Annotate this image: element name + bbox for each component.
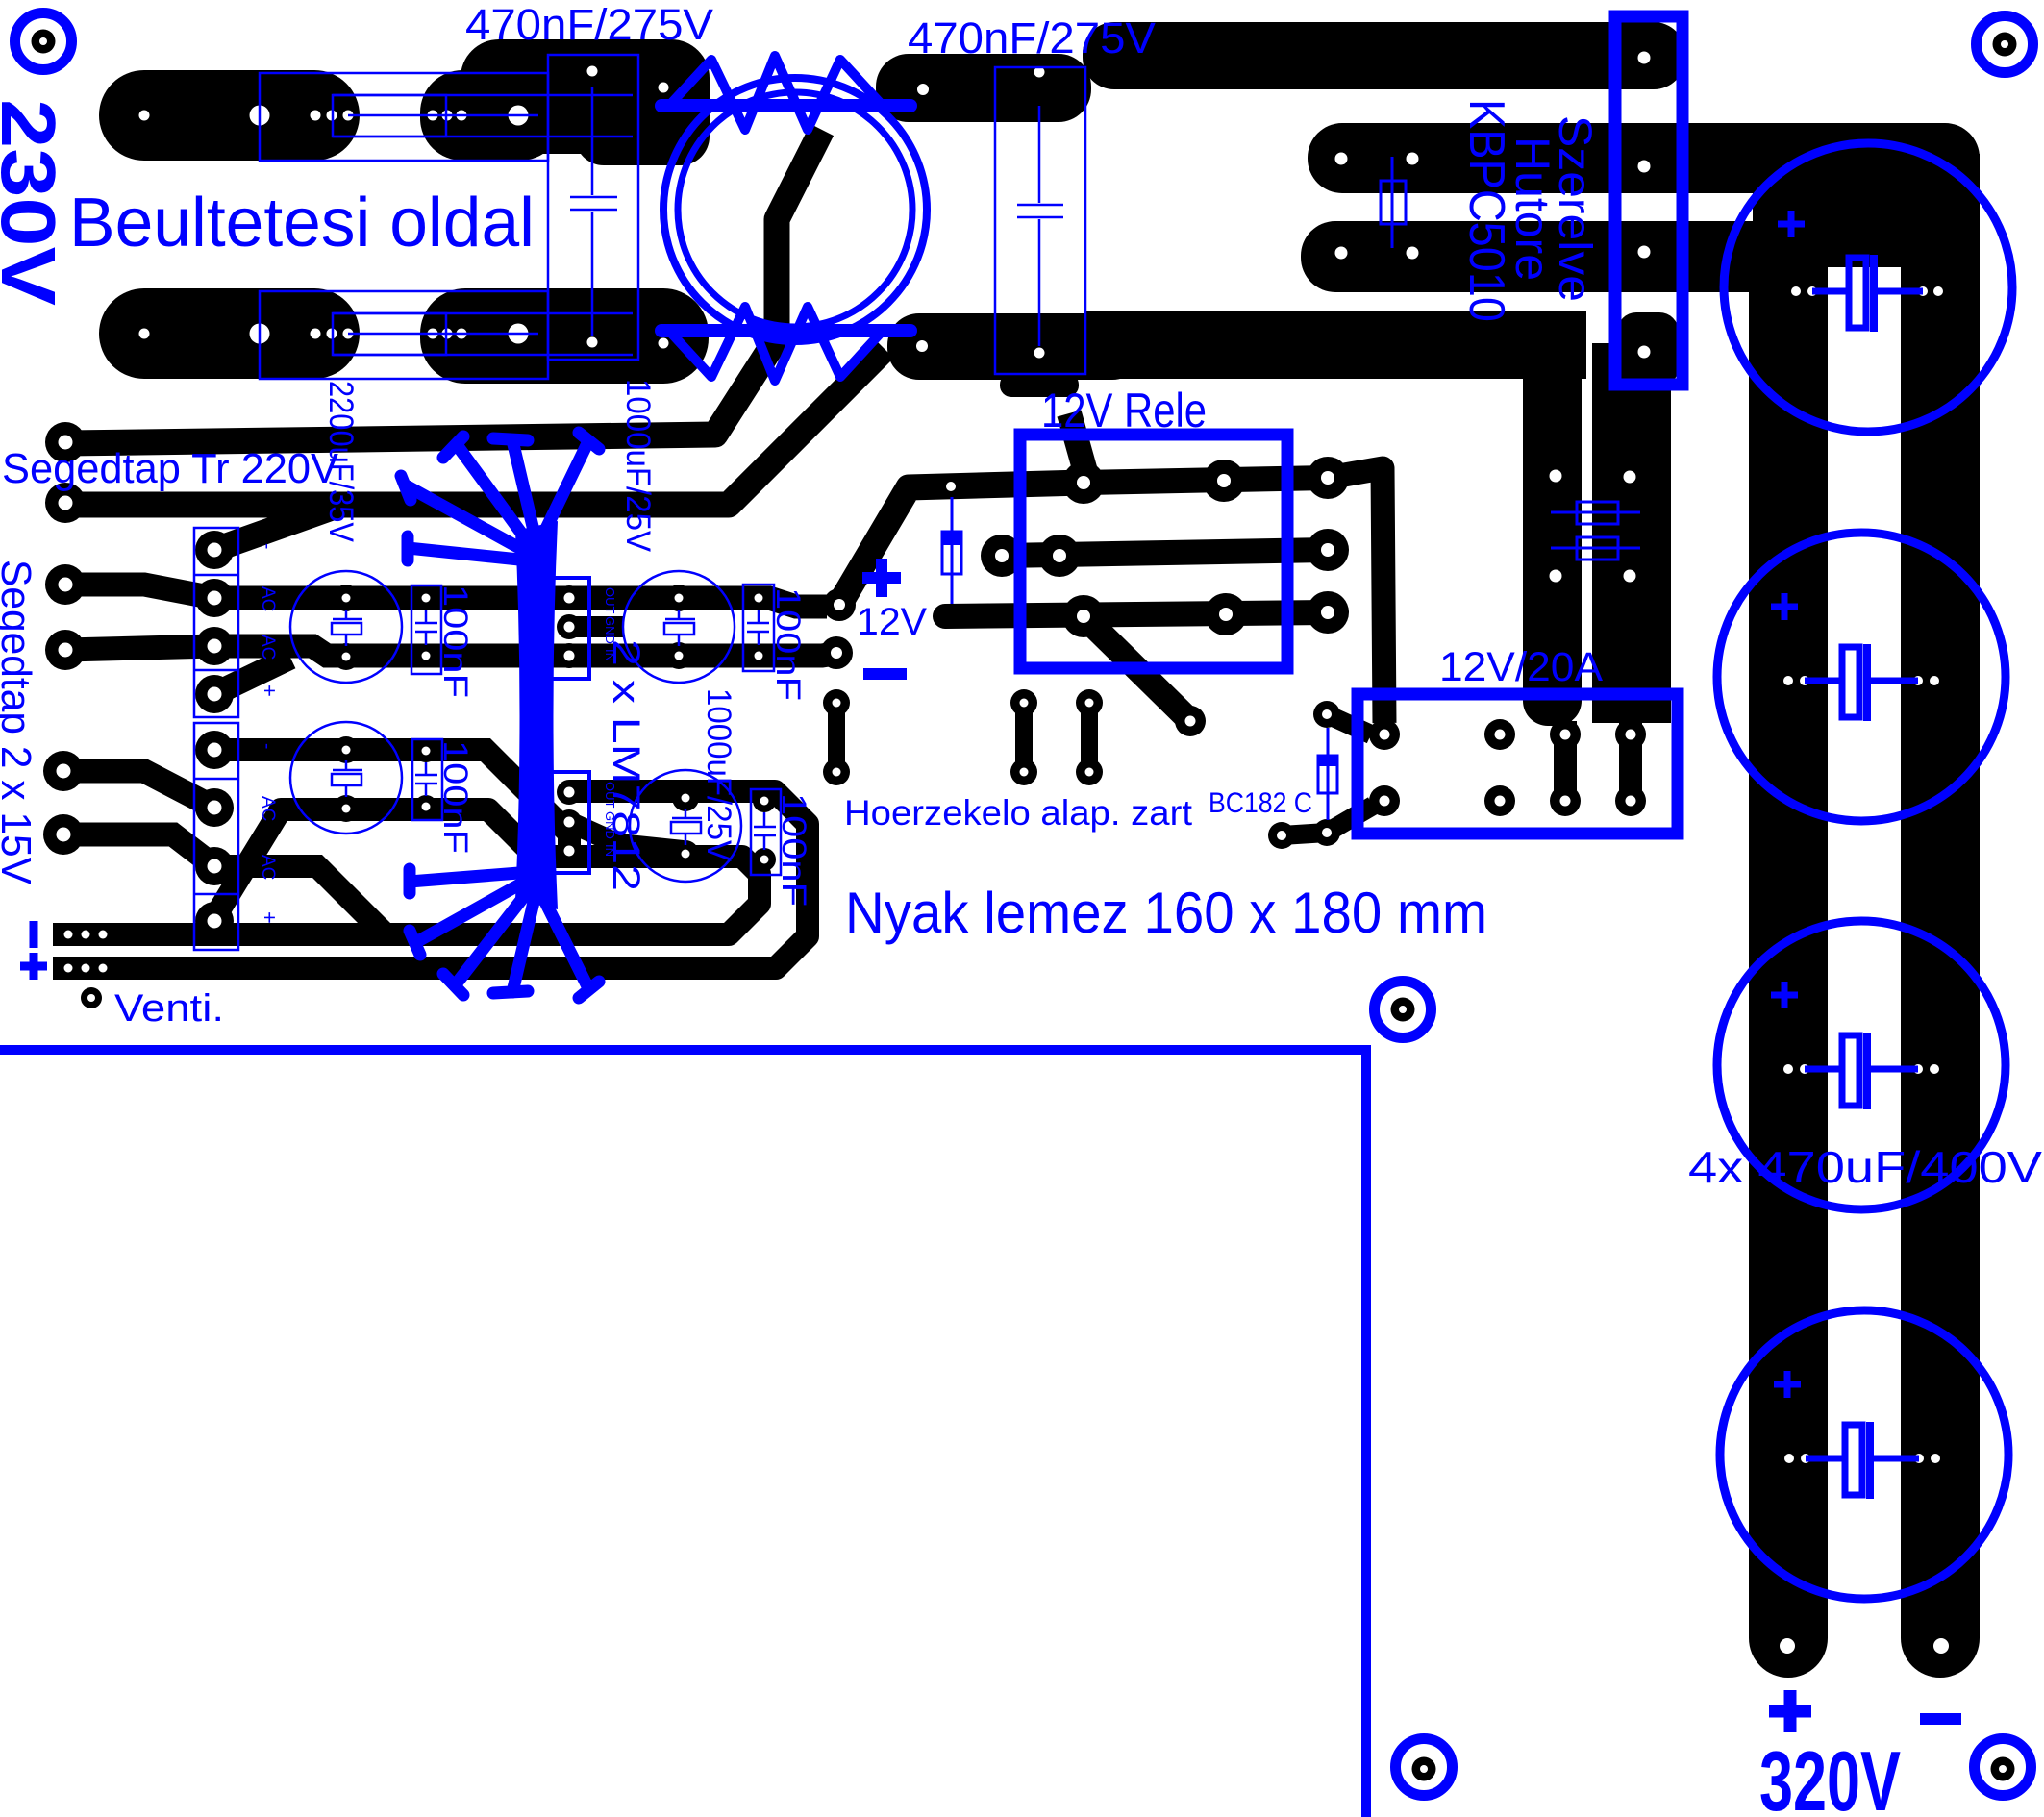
diode D1: [942, 497, 961, 604]
svg-text:IN: IN: [603, 844, 617, 857]
svg-text:Szerelve: Szerelve: [1549, 115, 1600, 302]
capacitor C1 470nF outline: [548, 55, 638, 360]
pad 12V minus output: [820, 636, 853, 669]
pad 12V/20A connector pads row2: [1369, 785, 1646, 816]
capacitor C4 2200uF outline: [290, 722, 402, 834]
bridge KBPC5010 outline: [1615, 16, 1683, 385]
pad blob C1 lower lobe: [575, 58, 710, 165]
pad C5 100nF pads: [414, 586, 437, 667]
wire row2 right pill to band: [887, 313, 1144, 380]
diode D2: [1318, 728, 1337, 820]
wire 2x15V feed 2: [65, 646, 214, 650]
board outline L line: [0, 1050, 1366, 1817]
hole 12V/20A pads: [1380, 730, 1636, 807]
hole middle components: [342, 482, 1094, 864]
thermistor R1 circle: [661, 56, 927, 381]
connector 12V/20A outline: [1358, 694, 1678, 834]
wire relay row2: [1002, 550, 1328, 556]
pad Segedtap Tr 220V pin1: [45, 422, 86, 462]
wire 230V pill row2 mid: [420, 288, 709, 384]
wire ch2 OUT outer U to Venti lower: [53, 791, 808, 968]
capacitor C11 470uF/400V: [1724, 143, 2012, 432]
svg-text:Hoerzekelo alap. zart: Hoerzekelo alap. zart: [844, 793, 1193, 833]
svg-text:100nF: 100nF: [436, 585, 474, 698]
wire 2x15V feed 4: [63, 834, 214, 866]
wire 12V OUT rail y622: [214, 598, 827, 607]
pad Segedtap Tr 220V pin2: [45, 483, 86, 523]
pad terminal block X2 pins: [195, 731, 234, 940]
mounting hole ring bottom-right: [1975, 1739, 2032, 1796]
mounting hole ring middle: [1375, 982, 1432, 1038]
svg-text:BC182 C: BC182 C: [1209, 787, 1312, 819]
wire relay diagonal contact: [1084, 616, 1190, 721]
capacitor C2 470nF outline: [995, 67, 1085, 374]
pad 12V/20A connector pads row1: [1369, 719, 1646, 750]
pad Segedtap 2x15V pin3: [43, 751, 84, 791]
svg-text:12V: 12V: [857, 601, 927, 643]
mounting hole ring top-left: [15, 13, 72, 70]
wire block1 plus diagonal: [214, 658, 290, 694]
pad Segedtap 2x15V pin1: [45, 564, 86, 605]
thermistor bottom zigzag: [667, 307, 885, 381]
pad blob C1 area top: [461, 39, 710, 154]
svg-text:470nF/275V: 470nF/275V: [465, 0, 713, 49]
pad C10 100nF pads: [753, 789, 776, 871]
wire KBPC col to 12V/20A pads: [1619, 719, 1642, 801]
label 320V minus: [1920, 1713, 1961, 1725]
wire top band to bridge: [1083, 22, 1685, 89]
hole relay pads: [995, 471, 1334, 727]
svg-text:100nF: 100nF: [775, 793, 812, 907]
relay K1 outline: [1020, 435, 1287, 668]
capacitor C12 470uF/400V: [1717, 533, 2006, 821]
svg-text:1000uF/25V: 1000uF/25V: [619, 379, 657, 553]
pad Segedtap 2x15V pin4: [43, 814, 84, 855]
svg-text:1000uF/25V: 1000uF/25V: [700, 688, 737, 862]
wire ch2 bottom rail to inner U and Venti upper: [53, 809, 760, 934]
pad C4 2200uF pads: [333, 736, 360, 822]
label Venti bar: [30, 921, 38, 948]
capacitor C13 470uF/400V: [1717, 921, 2006, 1209]
wire top band left (C2 pad blob): [876, 54, 1091, 122]
fuse F1 symbol: [1551, 502, 1640, 524]
mounting hole ring bottom-left: [1396, 1739, 1453, 1796]
terminal block X2 outline: [194, 723, 238, 950]
wire 12V+ to relay row1: [839, 483, 1084, 605]
wire 2x15V feed 1: [65, 585, 214, 598]
svg-text:12V Rele: 12V Rele: [1041, 384, 1207, 437]
hole row2 pills: [139, 324, 1045, 359]
heatsink bottom fins: [410, 873, 519, 882]
pad C8 1000uF pads: [672, 784, 699, 867]
label 12V plus: [862, 559, 901, 597]
svg-text:AC: AC: [258, 586, 278, 611]
wire 320V plus column: [1901, 154, 1980, 1638]
wire 230V pill row2 left: [99, 288, 360, 379]
svg-text:100nF: 100nF: [436, 740, 474, 854]
wire thermistor to top blob trace: [65, 130, 822, 443]
capacitor C9 100nF outline: [743, 585, 774, 671]
transistor Q1 BC182 pads: [1268, 701, 1373, 849]
svg-text:4x 470uF/400V: 4x 470uF/400V: [1688, 1142, 2042, 1192]
capacitor C5 100nF outline: [411, 585, 441, 674]
fuse outline row2: [260, 291, 633, 379]
pad C7 1000uF pads: [665, 585, 692, 669]
pad U1 LM7812 pins: [557, 585, 582, 668]
wire band2 bridge to right column: [1308, 123, 1980, 193]
pad sensor dumbbell 3: [1076, 689, 1103, 785]
svg-text:+: +: [258, 684, 282, 697]
label 320V plus: [1769, 1690, 1811, 1732]
wire band3 bridge to left column: [1301, 221, 1828, 292]
pad C3 2200uF pads: [333, 585, 360, 670]
label 12V minus: [863, 668, 907, 680]
svg-text:-: -: [257, 543, 277, 549]
wire 2x15V feed 3: [63, 771, 214, 808]
svg-text:GND: GND: [603, 616, 617, 644]
label Venti plus: [20, 953, 47, 980]
heatsink: [515, 521, 558, 909]
mounting hole ring top-right: [1977, 16, 2033, 73]
heatsink top fin feet: [443, 436, 463, 458]
wire 320V plus column bottom cap: [1901, 1599, 1980, 1678]
hole left connector pads: [57, 436, 222, 929]
pad Venti terminal ring: [81, 987, 102, 1008]
hole row1 pills: [139, 66, 1045, 126]
wire Segedtap T2 to row2 pill: [65, 349, 885, 505]
svg-text:OUT: OUT: [603, 587, 617, 614]
thermistor top lead: [661, 99, 910, 112]
svg-text:IN: IN: [603, 649, 617, 661]
pad terminal block X1 pins: [195, 531, 234, 713]
svg-text:Segedtap Tr 220V: Segedtap Tr 220V: [2, 445, 339, 492]
wire 320V minus column: [1749, 260, 1828, 1638]
regulator U2 LM7812 outline: [550, 772, 589, 873]
svg-text:230V: 230V: [0, 99, 71, 306]
svg-text:AC: AC: [258, 855, 278, 880]
wire row2 band to column A: [1085, 311, 1586, 379]
wire KBPC feed column down to 12V/20A: [1592, 343, 1671, 723]
wire 320V minus column bottom cap: [1749, 1599, 1828, 1678]
wire 230V pill row1 mid: [420, 70, 562, 161]
svg-text:Nyak lemez 160 x 180 mm: Nyak lemez 160 x 180 mm: [845, 881, 1487, 945]
svg-text:2200uF/35V: 2200uF/35V: [322, 381, 360, 543]
wire 230V pill row1 left: [99, 70, 360, 161]
hole Venti traces: [64, 931, 108, 1003]
capacitor C7 1000uF outline: [623, 571, 735, 683]
capacitor C14 470uF/400V: [1720, 1310, 2008, 1599]
svg-text:470nF/275V: 470nF/275V: [908, 13, 1156, 62]
capacitor C3 2200uF outline: [290, 571, 402, 683]
pad sensor dumbbell 2: [1010, 689, 1037, 785]
svg-text:100nF: 100nF: [769, 587, 807, 701]
hole BC182: [1277, 709, 1332, 840]
svg-text:OUT: OUT: [603, 782, 617, 809]
fuse F2 symbol: [1551, 537, 1640, 560]
wire ch2 top rail y780: [214, 750, 569, 847]
capacitor C10 100nF outline: [751, 789, 781, 875]
wire vertical column A (relay feed): [1523, 311, 1582, 726]
pad KBPC5010 bottom pad: [1617, 312, 1679, 386]
thermistor bottom lead: [661, 324, 910, 337]
wire relay row1: [1084, 478, 1328, 483]
pad bump under C2 bottom: [1000, 373, 1079, 397]
pad C9 100nF pads: [747, 586, 770, 667]
svg-text:Venti.: Venti.: [114, 987, 224, 1030]
hole 470uF cap pads: [1783, 286, 1943, 1463]
pad 12V plus output: [823, 588, 856, 621]
svg-text:12V/20A: 12V/20A: [1439, 644, 1603, 690]
pad sensor dumbbell 1: [823, 689, 850, 785]
svg-text:GND: GND: [603, 811, 617, 839]
svg-text:Beultetesi oldal: Beultetesi oldal: [69, 185, 535, 261]
capacitor C8 1000uF outline: [630, 770, 741, 882]
wire corner fill between bands at 470uF top: [1753, 190, 1980, 269]
wire relay row1 to 12V/20A: [1328, 468, 1384, 723]
capacitor C6 100nF outline: [412, 739, 442, 820]
pad relay K1 pads: [981, 457, 1349, 736]
svg-text:AC: AC: [258, 796, 278, 821]
wire ch1 GND stub: [569, 616, 623, 637]
svg-text:-: -: [257, 743, 277, 749]
fuse outline row1: [260, 73, 633, 161]
svg-text:+: +: [258, 911, 282, 924]
pad Segedtap 2x15V pin2: [45, 630, 86, 670]
wire block1 minus diagonal: [214, 505, 341, 550]
wire block2 AC2 to Venti upper: [214, 866, 385, 933]
wire ch2 GND stub: [569, 822, 683, 851]
heatsink bottom fin feet: [404, 869, 416, 893]
heatsink top fins: [458, 446, 529, 543]
hole 320V columns bottom: [1780, 1638, 1949, 1654]
wire colA to 12V/20A pads: [1554, 721, 1577, 801]
resistor R2 between pills: [1381, 157, 1406, 248]
wire relay row1 stub to band: [1069, 413, 1089, 485]
wire GND rail y682: [214, 646, 835, 656]
terminal block X1 outline: [194, 528, 238, 717]
thermistor top zigzag: [667, 56, 885, 130]
wire relay row3: [945, 612, 1328, 616]
pad C6 100nF pads: [414, 739, 437, 818]
pad U2 LM7812 pins: [557, 780, 582, 863]
hole pills right / KBPC: [1335, 52, 1651, 583]
svg-text:Segedtap 2 x 15V: Segedtap 2 x 15V: [0, 560, 39, 885]
svg-text:AC: AC: [258, 635, 278, 660]
regulator U1 LM7812 outline: [550, 578, 589, 679]
svg-text:320V: 320V: [1759, 1733, 1901, 1817]
